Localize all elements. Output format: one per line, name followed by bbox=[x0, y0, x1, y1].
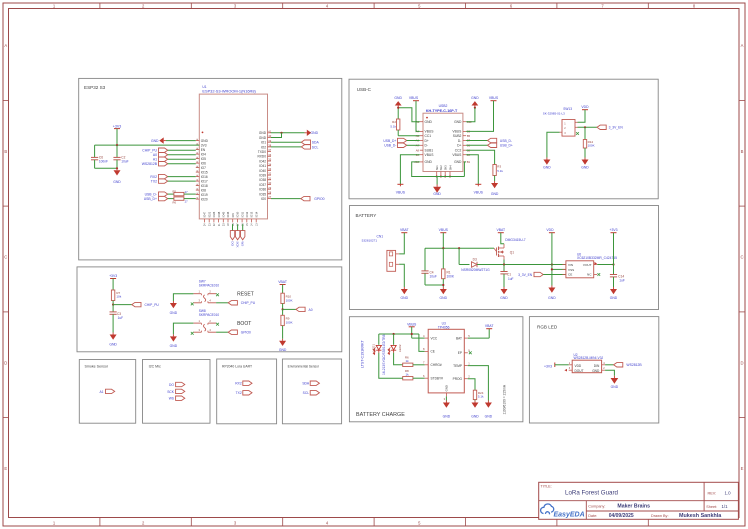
svg-text:IO41: IO41 bbox=[259, 164, 266, 168]
svg-text:16-213SYGC/S530-E2/TR8: 16-213SYGC/S530-E2/TR8 bbox=[382, 334, 386, 375]
section box Environmental Sensor bbox=[282, 359, 341, 424]
svg-text:E: E bbox=[4, 466, 7, 471]
svg-text:Date:: Date: bbox=[588, 514, 597, 518]
svg-text:A: A bbox=[4, 43, 7, 48]
svg-text:GND: GND bbox=[170, 311, 178, 315]
svg-text:SK-32985-01-L3: SK-32985-01-L3 bbox=[543, 112, 565, 116]
svg-text:A1: A1 bbox=[153, 158, 157, 162]
svg-text:100K: 100K bbox=[286, 321, 293, 325]
svg-text:SCK: SCK bbox=[235, 241, 239, 247]
svg-text:RXD0: RXD0 bbox=[257, 155, 266, 159]
wire B12 GND bbox=[466, 108, 475, 122]
svg-text:GND: GND bbox=[500, 296, 508, 300]
power flag VBUS (charger) bbox=[407, 322, 425, 338]
svg-text:ESP32 S3: ESP32 S3 bbox=[84, 85, 106, 90]
svg-text:IO10: IO10 bbox=[236, 211, 240, 217]
svg-text:CHIP_PU: CHIP_PU bbox=[145, 303, 160, 307]
svg-text:R6: R6 bbox=[173, 201, 177, 205]
rev text bbox=[708, 490, 732, 495]
easyeda logo bbox=[541, 504, 585, 518]
wire CN1 pin2 to ground bbox=[399, 264, 404, 287]
svg-text:BATTERY: BATTERY bbox=[356, 213, 377, 218]
svg-text:Maker Brains: Maker Brains bbox=[617, 504, 650, 510]
title text bbox=[541, 484, 619, 496]
svg-text:EasyEDA: EasyEDA bbox=[554, 511, 585, 518]
svg-text:VBUS: VBUS bbox=[396, 191, 406, 195]
svg-text:GND: GND bbox=[543, 165, 551, 169]
svg-text:VIN: VIN bbox=[568, 263, 573, 267]
op-amp U2 WS2812B-MINI body bbox=[564, 353, 605, 373]
svg-text:IO45: IO45 bbox=[222, 211, 226, 217]
ground (SW7) bbox=[170, 301, 178, 315]
svg-text:10uF: 10uF bbox=[430, 275, 437, 279]
resistor R2 5.1k bbox=[390, 119, 419, 136]
svg-text:+3V3: +3V3 bbox=[544, 365, 552, 369]
svg-text:B5: B5 bbox=[467, 134, 471, 138]
switch SW8 SKRPACE010 (BOOT) bbox=[191, 309, 220, 335]
svg-text:VBUS: VBUS bbox=[407, 322, 417, 326]
power flag VBAT (divider) bbox=[278, 280, 287, 293]
svg-text:IO6: IO6 bbox=[201, 162, 206, 166]
power flag VBAT (charger) bbox=[485, 324, 494, 329]
svg-text:Mukesh Sankhla: Mukesh Sankhla bbox=[679, 513, 722, 519]
svg-text:CN1: CN1 bbox=[377, 234, 384, 238]
wire B4 VBUS to flag (bottom-left) bbox=[400, 155, 419, 185]
svg-text:TX2: TX2 bbox=[151, 180, 157, 184]
svg-text:ESP32-S3-WROOM-1(N16R8): ESP32-S3-WROOM-1(N16R8) bbox=[202, 88, 256, 93]
svg-text:A0: A0 bbox=[309, 308, 313, 312]
svg-text:IO11: IO11 bbox=[240, 211, 244, 217]
svg-text:IO2: IO2 bbox=[261, 145, 266, 149]
svg-text:Company:: Company: bbox=[588, 504, 605, 508]
capacitor C3 1uF bbox=[110, 305, 124, 333]
node USB_D+ (USB left) bbox=[383, 138, 419, 143]
svg-text:VBAT: VBAT bbox=[485, 324, 494, 328]
resistor R7 10k bbox=[111, 290, 121, 305]
svg-text:IO19: IO19 bbox=[201, 193, 208, 197]
svg-text:NC: NC bbox=[587, 273, 592, 277]
diode D3 NSR0520MW2T1G bbox=[461, 258, 490, 272]
svg-text:SKRPACE010: SKRPACE010 bbox=[199, 283, 220, 287]
wire A12 GND to bottom bus bbox=[412, 162, 465, 177]
capacitor C14 1uF bbox=[610, 265, 625, 288]
ground (C1) bbox=[500, 287, 508, 300]
svg-text:100K: 100K bbox=[286, 298, 293, 302]
svg-text:VBAT: VBAT bbox=[278, 280, 287, 284]
svg-text:C: C bbox=[740, 255, 743, 260]
svg-text:GND: GND bbox=[425, 160, 433, 164]
svg-text:TEMP: TEMP bbox=[453, 364, 462, 368]
svg-text:Sheet:: Sheet: bbox=[706, 505, 717, 509]
sheet text bbox=[706, 504, 728, 509]
node GPIO0 (SW8 pin4) bbox=[216, 330, 251, 335]
power flag VBUS (USB top-right) bbox=[466, 96, 499, 131]
svg-text:3V3: 3V3 bbox=[201, 144, 207, 148]
svg-text:WS2812B: WS2812B bbox=[142, 162, 158, 166]
wire cap bottoms bbox=[95, 167, 119, 169]
svg-text:GND: GND bbox=[592, 369, 600, 373]
svg-text:SDA: SDA bbox=[312, 141, 320, 145]
svg-text:CC1: CC1 bbox=[425, 134, 432, 138]
power flag +3V3 (reset) bbox=[109, 274, 117, 290]
ground (USB bottom) bbox=[433, 177, 441, 197]
wire LED2 to R6c bbox=[394, 353, 403, 365]
svg-text:GND: GND bbox=[401, 296, 409, 300]
svg-text:CHIP_PU: CHIP_PU bbox=[142, 149, 157, 153]
svg-text:VBUS: VBUS bbox=[439, 228, 449, 232]
node USB_D- (USB left) bbox=[384, 143, 420, 148]
node USB_D+ (USB right) bbox=[466, 143, 513, 148]
svg-text:GPIO0: GPIO0 bbox=[314, 197, 324, 201]
svg-text:IO35: IO35 bbox=[259, 192, 266, 196]
svg-text:B: B bbox=[741, 149, 744, 154]
svg-text:IO46: IO46 bbox=[226, 211, 230, 217]
ground (CN1) bbox=[401, 287, 409, 300]
ground (C3) bbox=[109, 333, 117, 347]
power flag +3V3 (U6) bbox=[609, 228, 617, 264]
svg-text:BATTERY CHARGE: BATTERY CHARGE bbox=[356, 412, 405, 418]
ground (U3 GND pin3) bbox=[443, 396, 451, 418]
svg-text:TX2: TX2 bbox=[236, 391, 242, 395]
wire SW7 pin1 to ground bbox=[173, 294, 193, 301]
svg-text:+3V3: +3V3 bbox=[609, 228, 617, 232]
svg-text:GND: GND bbox=[471, 96, 479, 100]
svg-text:R5: R5 bbox=[173, 189, 177, 193]
section box BATTERY CHARGE bbox=[349, 317, 523, 422]
ground flag (USB top-right) bbox=[471, 96, 479, 109]
svg-text:100nF: 100nF bbox=[99, 160, 108, 164]
wire VBUS bus bbox=[425, 247, 489, 271]
svg-text:GND: GND bbox=[440, 296, 448, 300]
svg-text:B: B bbox=[4, 149, 7, 154]
switch SW13 SK-12D02-G3 body bbox=[543, 107, 579, 136]
svg-text:Environmental Sensor: Environmental Sensor bbox=[288, 365, 320, 369]
svg-text:1uF: 1uF bbox=[508, 277, 514, 281]
svg-text:5.1k: 5.1k bbox=[390, 124, 396, 128]
svg-text:Smoke Sensor: Smoke Sensor bbox=[85, 365, 109, 369]
svg-text:VDD: VDD bbox=[575, 364, 582, 368]
svg-text:100K: 100K bbox=[588, 143, 595, 147]
resistor R10 100K bbox=[281, 293, 293, 309]
ground (C4 R1) bbox=[440, 287, 448, 300]
svg-text:E: E bbox=[741, 466, 744, 471]
node 3_3V_EN (SW13) bbox=[578, 125, 624, 130]
wire GND pin (RGB) bbox=[605, 370, 614, 376]
node SDA (Environmental) bbox=[302, 381, 319, 386]
node SCL (IO2) bbox=[271, 145, 319, 150]
svg-text:RX2: RX2 bbox=[150, 175, 157, 179]
svg-text:LoRa Forest Guard: LoRa Forest Guard bbox=[565, 489, 619, 496]
svg-text:IO42: IO42 bbox=[259, 159, 266, 163]
resistor R14 100K bbox=[583, 127, 594, 157]
svg-text:SCK: SCK bbox=[167, 390, 175, 394]
svg-text:1/1: 1/1 bbox=[721, 504, 728, 509]
svg-text:GND: GND bbox=[151, 139, 159, 143]
svg-text:VDD: VDD bbox=[546, 228, 554, 232]
svg-text:USB_D+: USB_D+ bbox=[144, 197, 157, 201]
svg-text:VBUS: VBUS bbox=[425, 153, 435, 157]
svg-text:GND: GND bbox=[454, 120, 462, 124]
power flag VBAT (CN1) bbox=[399, 228, 408, 254]
node CHIP_PU (pullup) bbox=[112, 302, 159, 307]
svg-text:10uF: 10uF bbox=[121, 160, 128, 164]
svg-text:1k: 1k bbox=[406, 372, 410, 376]
resistor R5 27ohm bbox=[168, 189, 196, 195]
svg-text:IO37: IO37 bbox=[259, 183, 266, 187]
svg-text:A1: A1 bbox=[99, 390, 103, 394]
node SCK (I2C Mic) bbox=[167, 389, 185, 394]
wire VBUS to D3 anode bbox=[459, 248, 469, 264]
svg-text:1.0: 1.0 bbox=[724, 490, 731, 495]
U1 right pins with names and numbers bbox=[257, 129, 271, 201]
svg-text:SUB1: SUB1 bbox=[425, 149, 434, 153]
svg-text:1k: 1k bbox=[406, 359, 410, 363]
svg-text:5.1k: 5.1k bbox=[497, 169, 503, 173]
svg-text:04/09/2025: 04/09/2025 bbox=[609, 513, 634, 519]
node CHIP_PU (SW7 pin4) bbox=[216, 301, 256, 306]
node TX2 (IO17) bbox=[151, 179, 196, 184]
svg-text:GND: GND bbox=[611, 385, 619, 389]
capacitor C1 1uF bbox=[500, 265, 513, 288]
wire C4/R1 bottoms bbox=[425, 284, 444, 286]
svg-text:WS: WS bbox=[169, 397, 175, 401]
svg-text:SCL: SCL bbox=[312, 145, 319, 149]
svg-text:SH2: SH2 bbox=[439, 165, 443, 171]
node DO (I2C Mic) bbox=[169, 382, 185, 387]
svg-text:GND: GND bbox=[259, 131, 267, 135]
svg-text:NSR0520MW2T1G: NSR0520MW2T1G bbox=[461, 268, 490, 272]
svg-text:GND: GND bbox=[610, 296, 618, 300]
svg-text:CE: CE bbox=[431, 350, 435, 354]
svg-text:GND: GND bbox=[433, 192, 441, 196]
node USB_D- (USB right) bbox=[466, 138, 512, 143]
svg-text:USB_D+: USB_D+ bbox=[500, 144, 513, 148]
svg-text:RP2040 Lora UART: RP2040 Lora UART bbox=[222, 365, 252, 369]
ground (under R14) bbox=[581, 158, 589, 170]
section box ESP32 S3 bbox=[79, 78, 342, 260]
svg-text:5.1k: 5.1k bbox=[478, 394, 484, 398]
svg-text:SH1: SH1 bbox=[435, 165, 439, 171]
node A0 (divider) bbox=[282, 307, 313, 312]
svg-text:VBAT: VBAT bbox=[400, 228, 409, 232]
svg-text:USB_D-: USB_D- bbox=[500, 139, 512, 143]
power flag VBAT (Q1) bbox=[496, 228, 505, 244]
svg-text:SKRPACE010: SKRPACE010 bbox=[199, 313, 220, 317]
svg-text:A: A bbox=[741, 43, 744, 48]
svg-text:10k: 10k bbox=[116, 295, 121, 299]
svg-text:Drawn By:: Drawn By: bbox=[651, 514, 669, 518]
svg-text:WS2812B-MINI-V3J: WS2812B-MINI-V3J bbox=[574, 356, 604, 360]
svg-text:VBUS: VBUS bbox=[489, 96, 499, 100]
svg-text:TITLE:: TITLE: bbox=[541, 484, 552, 488]
svg-text:DMG3415U-7: DMG3415U-7 bbox=[505, 238, 526, 242]
node USB_D- (IO19) bbox=[145, 192, 168, 197]
date row bbox=[588, 513, 722, 519]
svg-text:SH4: SH4 bbox=[448, 165, 452, 171]
svg-text:IO5: IO5 bbox=[201, 157, 206, 161]
svg-text:IO1: IO1 bbox=[261, 141, 266, 145]
resistor R1 100K bbox=[442, 248, 455, 287]
svg-text:USB-C: USB-C bbox=[357, 87, 372, 92]
svg-text:1190/6100 = 215mA: 1190/6100 = 215mA bbox=[503, 384, 507, 414]
ground (ESP32 caps) bbox=[113, 168, 121, 184]
node GPIO0 (IO0) bbox=[271, 196, 325, 201]
svg-text:STDBY#: STDBY# bbox=[431, 377, 444, 381]
svg-text:IO39: IO39 bbox=[259, 174, 266, 178]
svg-text:SW13: SW13 bbox=[563, 107, 572, 111]
node WS2812B (IO6) bbox=[142, 162, 196, 167]
wire LED1 to R8 bbox=[379, 353, 402, 378]
svg-text:GND: GND bbox=[109, 343, 117, 347]
power flag VDD (battery) bbox=[546, 228, 554, 264]
node RX2 (RP2040) bbox=[235, 381, 252, 386]
svg-text:GND: GND bbox=[485, 415, 493, 419]
LED LED1 LTST-C191KRKT bbox=[360, 334, 381, 368]
wire A1 GND bbox=[397, 107, 420, 122]
svg-text:D-: D- bbox=[458, 139, 461, 143]
svg-text:XC6210B332MR_C424765: XC6210B332MR_C424765 bbox=[577, 256, 617, 260]
svg-text:GND: GND bbox=[454, 160, 462, 164]
svg-text:A8: A8 bbox=[416, 148, 420, 152]
svg-text:VBUS: VBUS bbox=[409, 96, 419, 100]
svg-text:KH-TYPE-C-16P-T: KH-TYPE-C-16P-T bbox=[426, 109, 458, 113]
USB2 shield pins SH1-SH4 bbox=[435, 165, 452, 178]
svg-text:DO: DO bbox=[169, 383, 174, 387]
svg-text:1uF: 1uF bbox=[619, 279, 625, 283]
svg-text:IO48: IO48 bbox=[217, 211, 221, 217]
svg-text:CC2: CC2 bbox=[455, 149, 462, 153]
transistor Q1 DMG3415U-7 PMOS bbox=[489, 238, 526, 259]
node RX2 (IO16) bbox=[150, 174, 195, 179]
company row bbox=[588, 504, 650, 510]
svg-text:VSS: VSS bbox=[568, 268, 574, 272]
svg-text:+3V3: +3V3 bbox=[109, 274, 117, 278]
wire B4 VBUS right to flag bbox=[466, 155, 478, 185]
svg-text:GND: GND bbox=[581, 165, 589, 169]
svg-text:RGB LED: RGB LED bbox=[537, 325, 558, 330]
svg-text:USB_D+: USB_D+ bbox=[383, 139, 396, 143]
svg-text:GND: GND bbox=[443, 415, 451, 419]
node WS (I2C Mic) bbox=[169, 396, 185, 401]
wire PROG to R24 bbox=[468, 379, 475, 391]
svg-text:I2C Mic: I2C Mic bbox=[149, 365, 161, 369]
svg-text:SH3: SH3 bbox=[444, 165, 448, 171]
svg-text:VCC: VCC bbox=[431, 336, 438, 340]
svg-text:SUB2: SUB2 bbox=[453, 134, 462, 138]
node A0 (IO4) bbox=[153, 153, 196, 158]
ground (C14) bbox=[610, 287, 618, 300]
ground flag (USB top-left) bbox=[394, 96, 402, 119]
ground (SW13 left) bbox=[543, 158, 551, 170]
section box BATTERY bbox=[350, 206, 659, 310]
svg-text:CHIP_PU: CHIP_PU bbox=[241, 301, 256, 305]
svg-text:532810271: 532810271 bbox=[362, 239, 378, 243]
svg-text:IO4: IO4 bbox=[201, 153, 206, 157]
U1 left pins with names bbox=[196, 139, 209, 202]
svg-text:LED1: LED1 bbox=[371, 344, 375, 352]
power flag +3V3 (ESP32) bbox=[113, 124, 122, 145]
svg-text:REV:: REV: bbox=[708, 491, 717, 495]
svg-text:3_3V_EN: 3_3V_EN bbox=[609, 126, 624, 130]
power flag VBUS (USB bottom-right) bbox=[474, 184, 484, 194]
svg-text:GND: GND bbox=[201, 139, 209, 143]
svg-text:B1: B1 bbox=[467, 160, 471, 164]
wire SW8 pin1 to ground bbox=[173, 323, 193, 334]
ground (U6 VSS) bbox=[548, 286, 556, 301]
node SDA (IO1) bbox=[271, 140, 320, 145]
svg-text:RESET: RESET bbox=[237, 291, 254, 297]
wire U1 GND pin41 to GND flag bbox=[271, 132, 305, 138]
svg-text:IO14: IO14 bbox=[254, 211, 258, 217]
svg-text:BAT: BAT bbox=[456, 336, 462, 340]
svg-text:USB2: USB2 bbox=[439, 104, 448, 108]
svg-text:LED2: LED2 bbox=[398, 344, 402, 352]
svg-text:RX2: RX2 bbox=[235, 382, 242, 386]
svg-text:IO0: IO0 bbox=[261, 197, 266, 201]
svg-text:27: 27 bbox=[185, 199, 188, 203]
svg-text:VBAT: VBAT bbox=[496, 228, 505, 232]
wire LED top bus bbox=[379, 333, 419, 335]
title block frame bbox=[539, 482, 739, 519]
svg-text:EN: EN bbox=[201, 148, 206, 152]
svg-text:IO40: IO40 bbox=[259, 169, 266, 173]
svg-text:VBUS: VBUS bbox=[452, 153, 462, 157]
ground flag (U1 right) bbox=[305, 130, 319, 136]
ground (SW8) bbox=[170, 334, 178, 348]
capacitor C4 10uF bbox=[421, 270, 436, 285]
svg-text:BOOT: BOOT bbox=[237, 321, 251, 327]
wire VSS to ground bbox=[551, 265, 566, 286]
svg-text:GND: GND bbox=[471, 415, 479, 419]
svg-text:PROG: PROG bbox=[453, 377, 463, 381]
svg-text:IO20: IO20 bbox=[201, 198, 208, 202]
op-amp U1 ESP32-S3-WROOM-1 module body bbox=[199, 85, 267, 219]
node USB_D+ (IO20) bbox=[144, 196, 168, 201]
wire Q1 drain to VIN line bbox=[482, 260, 566, 266]
USB2 pins bbox=[414, 120, 472, 164]
svg-text:IO38: IO38 bbox=[259, 178, 266, 182]
power flag VBUS (battery) bbox=[439, 228, 449, 248]
svg-text:GND: GND bbox=[548, 296, 556, 300]
power flag VDD (SW13) bbox=[578, 105, 590, 122]
svg-text:IO47: IO47 bbox=[203, 211, 207, 217]
node A1 (IO5) bbox=[153, 157, 196, 162]
wire CE tie bbox=[419, 334, 425, 351]
svg-text:3_3V_EN: 3_3V_EN bbox=[518, 273, 533, 277]
wire B1 GND to bottom bus bbox=[464, 162, 466, 177]
svg-text:+3V3: +3V3 bbox=[113, 124, 122, 128]
U1 bottom pins with rotated names bbox=[203, 211, 259, 226]
svg-text:IO21: IO21 bbox=[207, 211, 211, 217]
svg-text:DOUT: DOUT bbox=[575, 369, 584, 373]
power flag VBUS (USB top-left) bbox=[409, 96, 420, 131]
wire VOUT to +3V3 bbox=[597, 263, 614, 265]
svg-text:EP: EP bbox=[458, 351, 462, 355]
svg-text:GND: GND bbox=[279, 348, 287, 352]
svg-text:DIN: DIN bbox=[594, 364, 600, 368]
note current calc bbox=[503, 384, 507, 414]
svg-text:27: 27 bbox=[185, 190, 188, 194]
LED LED2 bbox=[382, 334, 402, 375]
op-amp U3 TP4056 charger body bbox=[423, 322, 472, 401]
svg-text:VDD: VDD bbox=[581, 105, 589, 109]
resistor R6 1k (charger) bbox=[403, 356, 425, 367]
svg-text:WS2812B: WS2812B bbox=[626, 363, 642, 367]
resistor R9 100K bbox=[281, 309, 293, 338]
resistor R3 5.1k bbox=[466, 150, 503, 181]
svg-text:SCL: SCL bbox=[303, 391, 310, 395]
resistor R8 1k bbox=[402, 369, 425, 380]
